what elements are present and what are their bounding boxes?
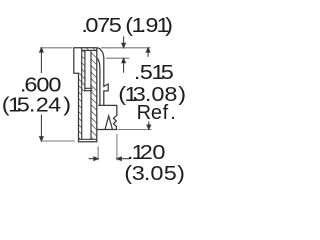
svg-text:Ref.: Ref. — [137, 102, 176, 124]
hatch right wall — [91, 51, 97, 140]
extension line .120 left — [97, 146, 99, 160]
solder tip block — [98, 105, 117, 129]
label .600 — [2, 73, 71, 116]
body outer outline — [74, 48, 97, 142]
label .075 (1.91) — [81, 14, 173, 37]
extension line bend top — [106, 57, 130, 59]
extension line top-right — [101, 47, 151, 49]
svg-text:(15.24): (15.24) — [2, 93, 71, 116]
hatch top band — [79, 48, 97, 139]
hatch lower left wall — [79, 73, 82, 139]
extension line .120 right — [116, 134, 118, 161]
svg-text:.075 (1.91): .075 (1.91) — [81, 14, 173, 37]
dimension .515 arrows — [146, 48, 150, 130]
body inner lines — [79, 48, 97, 140]
contact outer bend and leg with barb — [97, 48, 108, 106]
extension line top-left — [40, 48, 151, 161]
dimension .075 arrows — [122, 36, 126, 72]
svg-text:.120: .120 — [127, 141, 166, 164]
extension line bottom-left — [41, 140, 74, 142]
label .120 — [124, 141, 185, 185]
dimension .120 arrows — [89, 157, 130, 161]
label .515 — [118, 61, 186, 124]
extension line tip bottom — [118, 129, 152, 131]
lambda notch — [105, 116, 112, 129]
contact inner bend — [97, 58, 100, 105]
dimension .600 line and arrows — [40, 48, 44, 141]
svg-text:.515: .515 — [134, 61, 174, 84]
svg-text:(3.05): (3.05) — [124, 162, 185, 185]
hatch clip left wall — [82, 51, 85, 92]
